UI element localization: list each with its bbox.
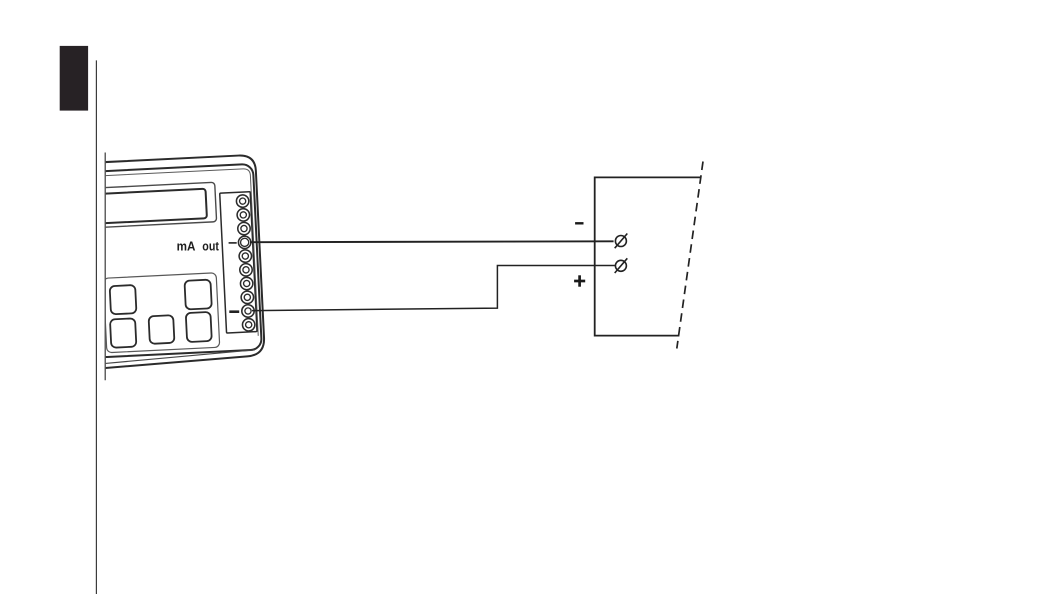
svg-text:mA: mA [177, 239, 196, 254]
svg-text:out: out [202, 239, 219, 254]
